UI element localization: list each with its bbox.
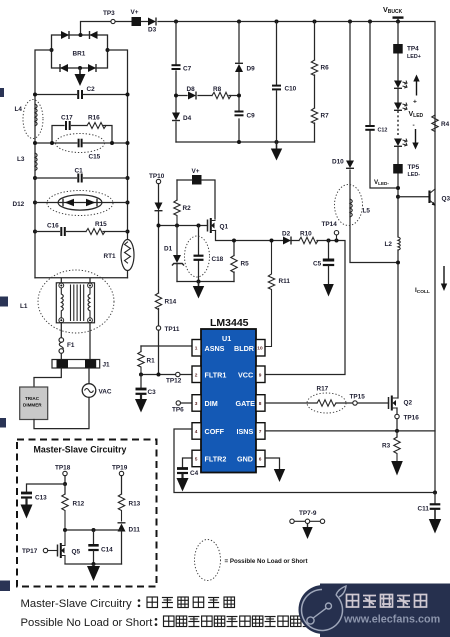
wire: D8/R8 row [176, 95, 239, 97]
test point TP6 and DIM wire [172, 401, 192, 414]
dotted ellipse around L4 [23, 100, 43, 139]
junction dots left column [33, 93, 130, 234]
resistor R16 [87, 115, 106, 129]
pin box 1 [192, 340, 201, 357]
edge watermark remnants [0, 88, 10, 591]
svg-text:D1: D1 [164, 246, 173, 253]
test point TP16 [395, 414, 419, 421]
V+ supply marker (mid) [192, 168, 202, 185]
pin box 2 [192, 366, 201, 383]
svg-text:R8: R8 [213, 86, 222, 93]
svg-text:FLTR2: FLTR2 [205, 455, 227, 464]
test point TP11 [156, 326, 180, 333]
inductor L5 [350, 199, 370, 217]
wire: rail above transformer [35, 278, 128, 284]
inductor L4 [15, 104, 38, 126]
transformer L1 [20, 283, 95, 323]
pin box 3 [192, 395, 201, 412]
wire: FLTR2 to C4 [183, 458, 193, 467]
svg-text:L1: L1 [20, 303, 28, 310]
wire: lower rail under C9 [176, 141, 315, 143]
bidirectional TVS D12 in ellipse [13, 195, 103, 210]
ground arrow below rail [271, 142, 282, 161]
svg-text:L4: L4 [15, 106, 23, 113]
pin box 10 [256, 340, 265, 357]
dotted ellipse around D12 [47, 191, 113, 216]
svg-text:DIMMER: DIMMER [23, 403, 42, 408]
resistor R17 [317, 386, 337, 407]
dotted wire between LEDs [397, 111, 399, 137]
resistor R8 [212, 86, 231, 99]
svg-text:Q1: Q1 [220, 224, 229, 231]
resistor R13 [118, 494, 140, 521]
wire: TP18 node to C13 [27, 484, 66, 492]
ground arrow below C14 [87, 564, 100, 581]
wire: top rail from bridge to right edge [81, 22, 436, 493]
thermistor RT1 [104, 240, 135, 271]
wire: ASNS row [141, 345, 192, 347]
wire: gate row TP10col to Q1 [159, 225, 208, 227]
ground arrow below BR1 [75, 68, 86, 86]
diode D2 [282, 231, 291, 245]
svg-text:D10: D10 [332, 159, 344, 166]
svg-text:TP7-9: TP7-9 [299, 510, 317, 517]
capacitor C1 [75, 168, 84, 183]
svg-text:D9: D9 [247, 66, 256, 73]
svg-text:TP10: TP10 [149, 173, 165, 180]
svg-text:+: + [413, 99, 417, 106]
wire: Q2 source to ISNS node [396, 408, 398, 431]
svg-text:6: 6 [259, 457, 262, 463]
svg-text:VLED: VLED [409, 111, 424, 119]
transistor Q3 [398, 189, 450, 206]
capacitor C3 [136, 375, 157, 401]
svg-text:C4: C4 [190, 470, 199, 477]
dotted ellipse around L5 [335, 185, 363, 226]
svg-text:C14: C14 [101, 547, 113, 554]
svg-text:R17: R17 [317, 386, 329, 393]
capacitor C11 [418, 493, 441, 521]
svg-text:L2: L2 [385, 241, 393, 248]
wire: J1 to TRIAC dimmer [34, 368, 61, 387]
svg-text:R1: R1 [147, 358, 156, 365]
svg-text:ASNS: ASNS [205, 344, 225, 353]
svg-text:C13: C13 [35, 495, 47, 502]
wire: transformer to F1 and J1 [61, 323, 90, 360]
test point TP3 [103, 10, 115, 24]
svg-text:TP6: TP6 [172, 407, 184, 414]
svg-text:D11: D11 [129, 527, 141, 534]
svg-text:TP11: TP11 [165, 326, 180, 333]
resistor R2 [174, 180, 191, 226]
diode D4 [172, 113, 192, 123]
capacitor C2 [78, 86, 95, 99]
junction dots on top rail [174, 20, 400, 24]
svg-text:Possible No Load or Short: Possible No Load or Short [21, 617, 154, 629]
LED1 [394, 81, 407, 89]
svg-text:D3: D3 [148, 27, 157, 34]
zener D1 [164, 226, 184, 282]
resistor R10 [291, 231, 318, 244]
wire: TRIAC to VAC return [34, 368, 89, 429]
svg-text:R2: R2 [183, 205, 192, 212]
AC source VAC [82, 384, 112, 398]
wire: D9/C9 column [238, 22, 240, 143]
svg-text:7: 7 [259, 429, 262, 435]
svg-text:C3: C3 [148, 389, 157, 396]
V+ supply marker (top) [131, 9, 142, 26]
svg-text:5: 5 [195, 457, 198, 463]
capacitor C15 [79, 139, 101, 161]
caption line 1: Master-Slave Circuitry : (Chinese) [21, 597, 235, 610]
svg-text:2: 2 [195, 373, 198, 379]
svg-text:TP5: TP5 [408, 164, 420, 171]
svg-text:LM3445: LM3445 [210, 317, 249, 329]
dotted ellipse around C18 [185, 236, 210, 277]
svg-text:VLED-: VLED- [374, 179, 389, 186]
wire: D1/C18 bottom rail [177, 281, 234, 283]
svg-text:V+: V+ [192, 168, 200, 175]
svg-text:D8: D8 [187, 86, 196, 93]
VBUCK net symbol [383, 5, 404, 22]
junction dots D8 row [174, 94, 241, 98]
svg-text:BR1: BR1 [73, 51, 86, 58]
svg-text:Master-Slave Circuitry: Master-Slave Circuitry [21, 598, 132, 610]
test point TP5 LED- [393, 164, 420, 178]
wire: D12 row [35, 202, 128, 204]
svg-text:R13: R13 [129, 501, 141, 508]
caption line 2: Possible No Load or Short : (Chinese) [21, 616, 314, 629]
svg-text:R4: R4 [441, 121, 450, 128]
ground arrow below R3 [391, 461, 403, 476]
wire: C10 column [276, 22, 278, 143]
resistor R1 [138, 346, 155, 375]
wire: C17/R16 branch [52, 126, 112, 144]
capacitor C10 [272, 86, 297, 93]
svg-text:R3: R3 [382, 443, 391, 450]
svg-text:TP15: TP15 [350, 394, 366, 401]
resistor R14 [155, 293, 176, 310]
svg-text:VAC: VAC [99, 389, 112, 396]
bridge rectifier BR1 [50, 31, 110, 72]
wire: BR1 left to left column [35, 50, 52, 278]
svg-text:-: - [413, 122, 415, 129]
wire: C15 rail [35, 142, 128, 144]
wire: C1 row [35, 177, 128, 179]
pin box 5 [192, 450, 201, 467]
capacitor C14 [88, 530, 113, 564]
test point TP12 [166, 372, 182, 384]
svg-text:VCC: VCC [238, 371, 253, 380]
test point TP18 [55, 465, 71, 487]
svg-text:R7: R7 [321, 113, 330, 120]
svg-text:ISNS: ISNS [237, 427, 254, 436]
svg-text:R14: R14 [165, 299, 177, 306]
resistor R7 [311, 108, 329, 124]
svg-text:U1: U1 [222, 334, 231, 343]
LED2 [394, 103, 407, 111]
svg-text:GND: GND [237, 455, 253, 464]
VLED annotation arrows [409, 75, 424, 150]
wire: C12 column [370, 22, 398, 189]
dotted ellipse around R17 [307, 393, 346, 413]
svg-text:Q2: Q2 [404, 400, 413, 407]
svg-text:C16: C16 [47, 223, 59, 230]
svg-text:1: 1 [195, 346, 198, 352]
svg-text:F1: F1 [67, 342, 75, 349]
svg-text:C2: C2 [87, 86, 96, 93]
ground arrow below C3 [135, 399, 147, 413]
svg-text:TP19: TP19 [112, 465, 128, 472]
svg-text:FLTR1: FLTR1 [205, 371, 227, 380]
svg-text:LED-: LED- [408, 172, 421, 178]
wire: D10/L5 column [350, 22, 398, 263]
svg-text:C11: C11 [418, 506, 430, 513]
svg-text:3: 3 [195, 401, 198, 407]
test point TP10 [149, 173, 165, 184]
svg-text:C15: C15 [89, 154, 101, 161]
svg-text:L3: L3 [17, 156, 25, 163]
wire: VCC feed row and drop to VCC pin [266, 241, 346, 375]
svg-text:R6: R6 [321, 65, 330, 72]
capacitor C7 [172, 65, 192, 72]
svg-text:Master-Slave Circuitry: Master-Slave Circuitry [34, 445, 127, 455]
wire: TP10 column down to R14 [158, 184, 160, 375]
svg-text:TP4: TP4 [407, 46, 419, 53]
diode D8 [187, 86, 197, 100]
test point TP17 [22, 548, 58, 555]
capacitor C17 [61, 115, 73, 131]
svg-text:TRIAC: TRIAC [25, 396, 40, 401]
MOSFET Q5 [58, 530, 81, 564]
svg-text:TP18: TP18 [55, 465, 71, 472]
svg-text:TP3: TP3 [103, 10, 115, 17]
LED3 [394, 139, 407, 147]
capacitor C12 [365, 126, 387, 134]
capacitor C5 [313, 241, 334, 286]
svg-text:R10: R10 [300, 231, 312, 238]
svg-text:9: 9 [259, 373, 262, 379]
capacitor C13 [21, 493, 47, 506]
test point TP4 LED+ [393, 44, 421, 60]
wire: Q5 source rail [65, 563, 122, 565]
svg-text:TP16: TP16 [404, 415, 420, 422]
wire: mid row R12 to D11 [65, 529, 122, 531]
svg-text:TP17: TP17 [22, 548, 38, 555]
wire: COFF loop to bottom rail [174, 429, 435, 493]
test point TP19 [112, 465, 128, 495]
svg-text:10: 10 [257, 346, 263, 352]
svg-text:C10: C10 [285, 86, 297, 93]
watermark box (elecfans) [299, 584, 450, 637]
svg-text:C7: C7 [183, 66, 192, 73]
pin box 6 [256, 450, 265, 467]
resistor R6 [311, 60, 329, 76]
svg-text:www.elecfans.com: www.elecfans.com [343, 614, 440, 626]
svg-text:DIM: DIM [205, 399, 218, 408]
TRIAC dimmer box [20, 387, 48, 420]
IC U1 LM3445 body [201, 317, 256, 473]
wire: R6/R7 column [314, 22, 316, 143]
wire: BR1 right to right column [108, 50, 128, 278]
wire: FLTR1/TP12 row [141, 374, 192, 376]
wire: C2 row [35, 94, 128, 96]
svg-text:C5: C5 [313, 261, 322, 268]
svg-text:C9: C9 [247, 113, 256, 120]
MOSFET Q2 [389, 396, 413, 411]
svg-text:LED+: LED+ [407, 54, 421, 60]
resistor R5 [231, 241, 249, 282]
test points TP7-9 [290, 510, 325, 539]
svg-text:TP12: TP12 [166, 378, 182, 385]
wire: C16/R15 row [35, 231, 128, 233]
svg-text:C18: C18 [212, 256, 224, 263]
svg-text:R11: R11 [279, 278, 291, 285]
svg-text:BLDR: BLDR [234, 344, 255, 353]
pin box 8 [256, 395, 265, 412]
wire: GND pin to ground [266, 458, 280, 470]
inductor L3 [17, 153, 37, 171]
svg-text:= Possible No Load or Short: = Possible No Load or Short [225, 558, 308, 565]
resistor R3 [382, 431, 400, 462]
svg-text:C12: C12 [378, 128, 388, 134]
svg-text:GATE: GATE [236, 399, 256, 408]
svg-text:C1: C1 [75, 168, 84, 175]
wire: GATE row [266, 402, 389, 404]
svg-text:D12: D12 [13, 201, 25, 208]
ground arrow below C18 [193, 282, 204, 299]
svg-text:TP14: TP14 [322, 221, 338, 228]
resistor R11 [266, 241, 291, 347]
diode D10 [332, 159, 354, 169]
ground arrow below C11 [429, 519, 441, 534]
svg-text:D2: D2 [282, 231, 291, 238]
wire: V+ row to Q1 drain [177, 180, 215, 219]
svg-text:R16: R16 [88, 115, 100, 122]
svg-text:Q3: Q3 [442, 196, 450, 203]
inductor L2 [385, 237, 401, 250]
test point TP15 [350, 394, 366, 406]
wire: Q1 source down to row [216, 231, 284, 241]
MOSFET Q1 [208, 218, 229, 233]
ground arrow below C13 [21, 505, 33, 519]
diode D9 [235, 63, 255, 72]
legend dotted ellipse [195, 540, 221, 581]
ICOLL annotation arrow [415, 266, 447, 295]
diode D11 [118, 523, 141, 564]
svg-text:4: 4 [195, 429, 198, 435]
svg-text:COFF: COFF [205, 427, 225, 436]
diode D13 (unlabeled) [155, 203, 163, 211]
junction dots LED- node [396, 186, 400, 265]
svg-text:C17: C17 [61, 115, 73, 122]
capacitor C18 [194, 226, 224, 282]
resistor R12 [62, 484, 85, 530]
svg-text:RT1: RT1 [104, 253, 117, 260]
ground arrow at GND pin [274, 469, 285, 482]
svg-text:8: 8 [259, 401, 262, 407]
svg-text:R5: R5 [241, 261, 250, 268]
connector J1 [52, 360, 110, 369]
wire: LED string column [397, 22, 399, 399]
resistor R4 [432, 115, 450, 131]
pin box 9 [256, 366, 265, 383]
svg-text:R15: R15 [95, 221, 107, 228]
svg-text:J1: J1 [103, 362, 111, 369]
pin box 7 [256, 423, 265, 440]
ground arrow below C5 [323, 284, 334, 297]
Master-Slave dashed box [17, 440, 157, 587]
capacitor C16 [47, 223, 65, 237]
svg-text:L5: L5 [363, 208, 371, 215]
capacitor C9 [235, 112, 256, 120]
ground arrow below C4 [177, 478, 189, 492]
test point TP14 [322, 221, 339, 241]
svg-text:Q5: Q5 [72, 549, 81, 556]
diode D3 [148, 18, 157, 34]
fuse F1 [59, 338, 75, 354]
wire: C7/D4 column [175, 22, 177, 143]
capacitor C4 [177, 469, 199, 480]
svg-text:V+: V+ [131, 9, 139, 16]
resistor R15 [86, 221, 107, 235]
svg-text:R12: R12 [73, 501, 85, 508]
dotted ellipse around C15 [56, 134, 105, 153]
svg-text:D4: D4 [183, 115, 192, 122]
pin box 4 [192, 423, 201, 440]
wire: ISNS row [266, 430, 436, 432]
dotted ellipse around L1 [38, 270, 114, 333]
